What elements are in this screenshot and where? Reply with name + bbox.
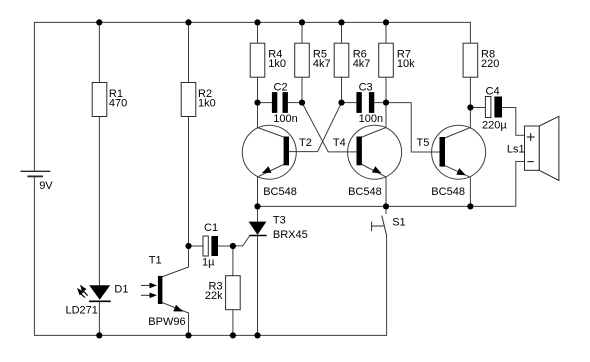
phototransistor T1 bbox=[141, 276, 183, 312]
svg-text:100n: 100n bbox=[359, 113, 383, 125]
wire R8 to T5 collector bbox=[469, 77, 471, 127]
transistor T2 bbox=[242, 125, 296, 179]
wire R6 bottom bbox=[341, 77, 343, 102]
wire R2 column top bbox=[188, 22, 190, 82]
LED D1 bbox=[77, 285, 111, 302]
svg-text:220: 220 bbox=[481, 58, 499, 70]
svg-text:1k0: 1k0 bbox=[198, 98, 216, 110]
resistor R3 bbox=[226, 276, 241, 310]
wire T3 gate bbox=[233, 236, 250, 246]
wire C3 right bbox=[374, 102, 386, 104]
svg-text:T3: T3 bbox=[273, 215, 286, 227]
svg-text:BC548: BC548 bbox=[263, 186, 297, 198]
switch S1 bbox=[372, 216, 387, 234]
svg-text:LD271: LD271 bbox=[66, 305, 98, 317]
transistor T4 bbox=[348, 125, 402, 179]
wire rail to T3 anode bbox=[257, 206, 259, 221]
svg-text:D1: D1 bbox=[114, 283, 128, 295]
resistor R2 bbox=[181, 83, 196, 117]
svg-text:S1: S1 bbox=[392, 216, 405, 228]
wire node to C4 bbox=[470, 107, 485, 109]
wire R4 column top bbox=[257, 22, 259, 43]
svg-text:BC548: BC548 bbox=[348, 186, 382, 198]
wire node to C1 bbox=[189, 245, 203, 247]
svg-text:T2: T2 bbox=[299, 137, 312, 149]
wire T2 emitter diagonal bbox=[258, 164, 285, 177]
wire R7 to T4 collector bbox=[385, 77, 387, 127]
wire T4 emitter to rail bbox=[385, 177, 387, 207]
wire T2 emitter to rail bbox=[257, 177, 259, 207]
wire C3 left bbox=[342, 102, 357, 104]
wire C2 right bbox=[288, 102, 302, 104]
wire C4 to speaker plus bbox=[502, 108, 525, 136]
resistor R6 bbox=[334, 43, 349, 77]
svg-text:T4: T4 bbox=[333, 137, 346, 149]
wire R4 to T2 collector bbox=[257, 77, 259, 127]
resistor R4 bbox=[250, 43, 265, 77]
svg-text:1k0: 1k0 bbox=[268, 58, 286, 70]
svg-text:100n: 100n bbox=[273, 113, 297, 125]
wire speaker minus to rail bbox=[516, 162, 525, 207]
wire R1 to D1 bbox=[98, 117, 100, 286]
capacitor C2 bbox=[272, 92, 288, 113]
svg-text:BPW96: BPW96 bbox=[148, 316, 185, 328]
svg-text:C3: C3 bbox=[359, 81, 373, 93]
svg-text:470: 470 bbox=[109, 98, 127, 110]
wire T5 emitter to rail bbox=[469, 177, 471, 206]
battery 9V bbox=[21, 171, 51, 176]
wire bottom rail 0V bbox=[34, 176, 386, 335]
svg-text:10k: 10k bbox=[397, 58, 415, 70]
svg-text:T1: T1 bbox=[149, 255, 162, 267]
wire C1 to gate node bbox=[218, 245, 233, 247]
capacitor C3 bbox=[356, 92, 374, 113]
svg-text:22k: 22k bbox=[205, 290, 223, 302]
wire R2 to T1 collector bbox=[162, 117, 189, 278]
svg-text:4k7: 4k7 bbox=[313, 58, 331, 70]
wire T4 emitter diagonal bbox=[361, 164, 386, 177]
svg-text:C2: C2 bbox=[274, 81, 288, 93]
wire T2 collector diagonal bbox=[258, 128, 285, 138]
svg-text:T5: T5 bbox=[417, 137, 430, 149]
wire R5 column top bbox=[301, 22, 303, 43]
svg-text:BC548: BC548 bbox=[431, 186, 465, 198]
resistor R8 bbox=[463, 43, 478, 77]
resistor R7 bbox=[379, 43, 394, 77]
wire T3 cathode to bottom rail bbox=[257, 236, 259, 336]
wire R1 column top bbox=[98, 22, 100, 82]
wire R3 top bbox=[232, 246, 234, 276]
wire T4 collector diagonal bbox=[361, 128, 386, 138]
thyristor T3 bbox=[249, 222, 267, 236]
wire T5 emitter diagonal bbox=[445, 165, 471, 177]
loudspeaker Ls1 bbox=[525, 116, 559, 180]
wire cross-couple C2 to T4 base bbox=[302, 103, 357, 152]
svg-text:220µ: 220µ bbox=[482, 119, 507, 131]
wire R3 to bottom rail bbox=[232, 310, 234, 336]
wire cross-couple C3 to T2 base bbox=[289, 103, 342, 152]
resistor R1 bbox=[92, 83, 107, 117]
wire S1 stub bbox=[385, 206, 387, 214]
svg-text:BRX45: BRX45 bbox=[273, 229, 308, 241]
svg-text:C1: C1 bbox=[204, 222, 218, 234]
wire emitter rail bbox=[258, 205, 516, 207]
svg-text:4k7: 4k7 bbox=[353, 58, 371, 70]
wire top rail +9V bbox=[34, 22, 470, 171]
svg-text:Ls1: Ls1 bbox=[507, 144, 525, 156]
wire C2 left bbox=[258, 102, 272, 104]
wire R5 bottom bbox=[301, 77, 303, 102]
capacitor C1 polarized bbox=[203, 236, 218, 256]
resistor R5 bbox=[295, 43, 310, 77]
wire R7 column top bbox=[385, 22, 387, 43]
wire T1 emitter to bottom rail bbox=[162, 303, 188, 336]
transistor T5 bbox=[432, 125, 486, 179]
svg-text:1µ: 1µ bbox=[202, 256, 215, 268]
wire T5 collector diagonal bbox=[445, 128, 471, 139]
wire R6 column top bbox=[341, 22, 343, 43]
wire node to T5 base bbox=[386, 103, 440, 152]
svg-text:9V: 9V bbox=[39, 180, 53, 192]
capacitor C4 polarized bbox=[485, 97, 502, 118]
svg-text:C4: C4 bbox=[486, 85, 500, 97]
wire D1 to bottom rail bbox=[98, 301, 100, 335]
